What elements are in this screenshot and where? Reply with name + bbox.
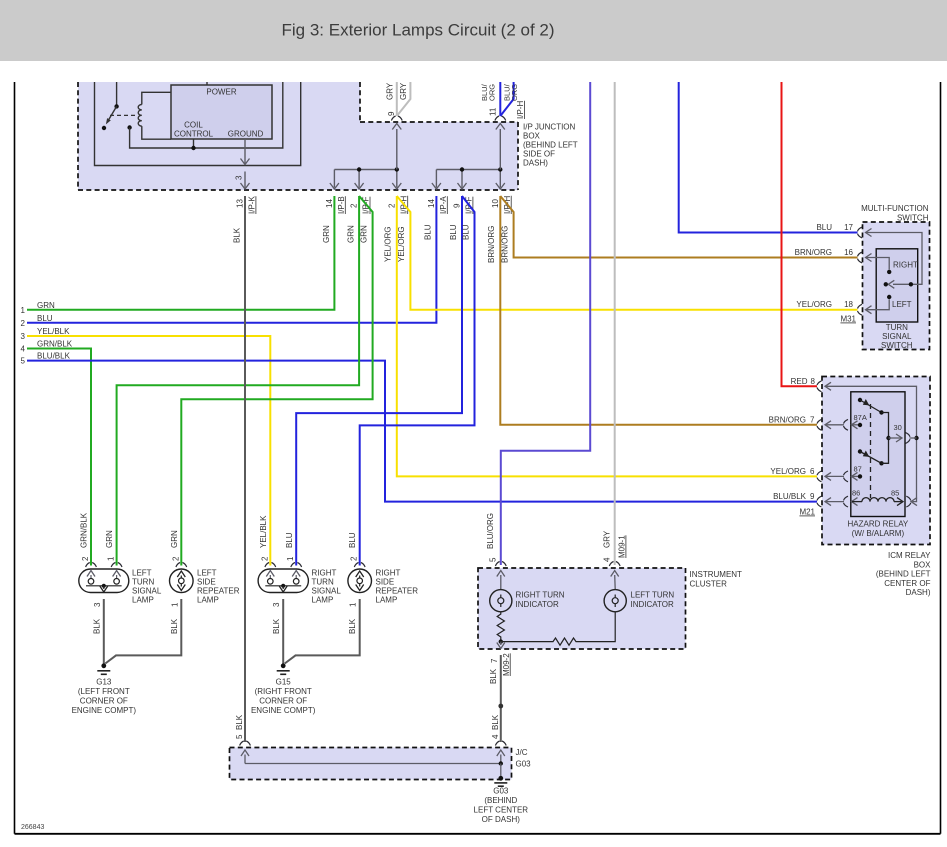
svg-text:BLU: BLU xyxy=(449,224,458,240)
node switch common xyxy=(884,282,888,286)
wire COIL CONTROL pin drop xyxy=(193,139,195,148)
svg-text:18: 18 xyxy=(844,300,853,309)
wire BLU/ORG stub straight xyxy=(499,82,501,116)
svg-text:14: 14 xyxy=(325,199,334,208)
pin 16 multi-function switch xyxy=(858,252,863,263)
svg-text:BLU: BLU xyxy=(348,532,357,548)
svg-text:GRN: GRN xyxy=(322,225,331,243)
svg-text:87A: 87A xyxy=(854,413,867,422)
svg-text:M09-1: M09-1 xyxy=(618,535,627,558)
right turn indicator lamp xyxy=(490,590,512,612)
wire GROUND drop xyxy=(244,139,246,164)
node coil-control junction xyxy=(127,125,131,129)
svg-text:CORNER OF: CORNER OF xyxy=(80,697,128,706)
svg-text:2: 2 xyxy=(350,556,359,561)
svg-text:2: 2 xyxy=(21,319,26,328)
svg-text:LEFT: LEFT xyxy=(197,569,217,578)
svg-text:SIGNAL: SIGNAL xyxy=(132,587,162,596)
svg-text:GRN: GRN xyxy=(37,301,55,310)
relay coil 86-85 xyxy=(852,501,862,503)
relay coil L xyxy=(138,105,142,127)
armature dashed link xyxy=(870,404,872,498)
node G03 junction xyxy=(499,761,503,765)
svg-text:GRY: GRY xyxy=(399,82,408,100)
svg-text:J/C: J/C xyxy=(516,748,528,757)
svg-text:CENTER OF: CENTER OF xyxy=(884,579,930,588)
pin 5 J/C xyxy=(240,741,251,746)
wire to ground G03 xyxy=(500,764,502,778)
svg-text:I/P-H: I/P-H xyxy=(516,101,525,119)
relay inner terminal box POWER / COIL CONTROL / GROUND xyxy=(171,85,272,139)
svg-text:GRY: GRY xyxy=(603,530,612,548)
wire YEL/BLK line3 to right turn signal lamp pin2 xyxy=(27,336,270,566)
svg-text:1: 1 xyxy=(107,556,116,561)
svg-text:LEFT TURN: LEFT TURN xyxy=(631,591,675,600)
ICM relay box (dashed) xyxy=(822,377,930,545)
svg-text:10: 10 xyxy=(491,199,500,208)
svg-text:BLU/BLK: BLU/BLK xyxy=(37,352,71,361)
wire BRN/ORG branch to multi-function switch pin16 xyxy=(500,196,857,258)
svg-text:9: 9 xyxy=(387,111,396,116)
wire coil control run xyxy=(130,82,283,148)
wire RED feed to hazard relay pin8 xyxy=(782,82,818,386)
svg-text:6: 6 xyxy=(810,467,815,476)
pin 18 multi-function switch xyxy=(858,304,863,315)
pin 4 instrument cluster xyxy=(609,562,620,567)
wire pin16 to RIGHT contact xyxy=(866,258,889,270)
pin 2 I/P-H I/P junction box bottom xyxy=(390,191,392,193)
svg-text:4: 4 xyxy=(603,557,612,562)
svg-text:Fig 3: Exterior Lamps Circuit: Fig 3: Exterior Lamps Circuit (2 of 2) xyxy=(281,21,554,40)
svg-text:CLUSTER: CLUSTER xyxy=(690,580,728,589)
svg-text:REPEATER: REPEATER xyxy=(197,587,240,596)
svg-text:7: 7 xyxy=(810,415,815,424)
svg-text:13: 13 xyxy=(236,199,245,208)
svg-text:BLK: BLK xyxy=(233,227,242,243)
svg-text:GRN: GRN xyxy=(105,530,114,548)
svg-text:I/P-A: I/P-A xyxy=(439,196,448,214)
svg-text:ICM RELAY: ICM RELAY xyxy=(888,551,931,560)
pin 13 I/P-K I/P junction box bottom xyxy=(239,191,241,193)
svg-text:ENGINE COMPT): ENGINE COMPT) xyxy=(72,706,137,715)
wire POWER feed stub xyxy=(206,82,208,85)
svg-text:SIDE: SIDE xyxy=(197,578,216,587)
svg-text:RIGHT: RIGHT xyxy=(893,260,918,269)
relay switch contact node xyxy=(102,126,106,130)
left turn signal lamp xyxy=(79,569,129,593)
svg-text:85: 85 xyxy=(891,489,899,498)
svg-text:5: 5 xyxy=(21,357,26,366)
svg-text:8: 8 xyxy=(811,377,816,386)
svg-text:OF DASH): OF DASH) xyxy=(482,815,521,824)
node LEFT contact xyxy=(887,295,891,299)
svg-text:(BEHIND LEFT: (BEHIND LEFT xyxy=(523,141,578,150)
wire pin9 feed into bus A xyxy=(396,129,398,170)
wire BLK right turn lamp to G15 xyxy=(282,599,284,664)
svg-text:3: 3 xyxy=(21,332,26,341)
header title bar xyxy=(0,0,947,61)
svg-text:GRN: GRN xyxy=(360,225,369,243)
svg-text:LAMP: LAMP xyxy=(132,596,154,605)
page frame border xyxy=(14,82,16,834)
wire GRY stub diagonal xyxy=(397,82,411,116)
multi-function switch box xyxy=(863,222,930,350)
svg-text:LEFT CENTER: LEFT CENTER xyxy=(474,806,529,815)
svg-text:HAZARD RELAY: HAZARD RELAY xyxy=(848,520,909,529)
svg-text:86: 86 xyxy=(852,489,860,498)
svg-text:RIGHT: RIGHT xyxy=(312,569,337,578)
svg-text:REPEATER: REPEATER xyxy=(376,587,419,596)
svg-text:BLU/BLK: BLU/BLK xyxy=(773,492,807,501)
svg-text:DASH): DASH) xyxy=(523,159,548,168)
wire pin8 feed to pin85 and pin30 xyxy=(826,386,917,501)
svg-text:14: 14 xyxy=(427,199,436,208)
svg-text:SIDE: SIDE xyxy=(376,578,395,587)
relay blade upper xyxy=(858,398,862,402)
svg-text:INDICATOR: INDICATOR xyxy=(631,600,674,609)
pin 87A bracket xyxy=(844,419,849,430)
svg-text:LEFT: LEFT xyxy=(132,569,152,578)
svg-text:1: 1 xyxy=(286,556,295,561)
pin 9 I/P-F I/P junction box bottom xyxy=(456,191,458,193)
svg-text:G03: G03 xyxy=(516,760,532,769)
svg-text:GRN/BLK: GRN/BLK xyxy=(37,340,73,349)
svg-text:DASH): DASH) xyxy=(906,588,931,597)
svg-text:BOX: BOX xyxy=(914,560,932,569)
left turn indicator lamp xyxy=(604,590,626,612)
pin 4 J/C xyxy=(495,741,506,746)
pin 3 relay ground xyxy=(239,166,241,168)
svg-text:266843: 266843 xyxy=(21,824,44,831)
svg-text:MULTI-FUNCTION: MULTI-FUNCTION xyxy=(861,204,929,213)
wire YEL/ORG branch to multi-function switch pin18 xyxy=(397,196,858,310)
relay mechanical link (dashed) xyxy=(110,114,138,116)
svg-text:BLK: BLK xyxy=(235,714,244,730)
svg-text:(BEHIND LEFT: (BEHIND LEFT xyxy=(876,570,931,579)
svg-text:BRN/ORG: BRN/ORG xyxy=(769,415,806,424)
pin 87 bracket xyxy=(844,471,849,482)
svg-text:7: 7 xyxy=(490,658,499,663)
svg-text:(BEHIND: (BEHIND xyxy=(484,796,517,805)
right turn signal lamp xyxy=(258,569,308,593)
node bus B junctions xyxy=(460,167,464,171)
pin 5 instrument cluster xyxy=(495,562,506,567)
svg-text:ENGINE COMPT): ENGINE COMPT) xyxy=(251,706,316,715)
pin 9 I/P top xyxy=(391,116,402,121)
svg-text:GRY: GRY xyxy=(386,82,395,100)
svg-text:BLU/ORG: BLU/ORG xyxy=(486,513,495,549)
svg-text:I/P-B: I/P-B xyxy=(337,196,346,214)
pin 7 instrument cluster xyxy=(500,642,502,645)
node control junction dot xyxy=(191,146,195,150)
svg-text:(W/ B/ALARM): (W/ B/ALARM) xyxy=(852,529,905,538)
J/C G03 junction box (dashed) xyxy=(230,748,512,780)
internal bus J/C xyxy=(245,763,501,765)
svg-text:COIL: COIL xyxy=(184,121,203,130)
svg-text:SWITCH: SWITCH xyxy=(881,341,913,350)
resistor R horizontal xyxy=(501,612,615,645)
wire BLU line2 from I/P-A pin14 xyxy=(27,196,436,323)
pin 2 I/P-F I/P junction box bottom xyxy=(353,191,355,193)
node 87 contact xyxy=(858,474,862,478)
wire GRN from I/P-F pin2 to left turn signal lamp pin1 xyxy=(117,196,360,566)
svg-text:BRN/ORG: BRN/ORG xyxy=(795,248,832,257)
relay switch pivot node xyxy=(114,104,118,108)
svg-text:LAMP: LAMP xyxy=(376,596,398,605)
relay switch blade xyxy=(109,106,117,119)
node RIGHT contact xyxy=(887,270,891,274)
svg-text:I/P JUNCTION: I/P JUNCTION xyxy=(523,123,576,132)
pin 14 I/P-B I/P junction box bottom xyxy=(328,191,330,193)
svg-text:4: 4 xyxy=(491,734,500,739)
node pin 30 junction xyxy=(886,436,890,440)
svg-text:POWER: POWER xyxy=(206,88,236,97)
svg-text:SWITCH: SWITCH xyxy=(897,214,929,223)
svg-text:5: 5 xyxy=(489,557,498,562)
wire pin18 to LEFT contact xyxy=(866,300,889,310)
pin 14 I/P-A I/P junction box bottom xyxy=(430,191,432,193)
svg-text:BLU: BLU xyxy=(816,223,832,232)
svg-text:BLU: BLU xyxy=(462,224,471,240)
svg-text:G03: G03 xyxy=(493,787,509,796)
relay blade lower xyxy=(858,449,862,453)
svg-text:87: 87 xyxy=(854,465,862,474)
svg-text:YEL/BLK: YEL/BLK xyxy=(259,515,268,548)
svg-text:RIGHT TURN: RIGHT TURN xyxy=(516,591,565,600)
svg-text:SIDE OF: SIDE OF xyxy=(523,150,555,159)
wire GRN branch to left side repeater lamp pin2 xyxy=(181,196,372,566)
turn signal switch inner box xyxy=(876,249,918,322)
svg-text:I/P-K: I/P-K xyxy=(248,196,257,214)
svg-text:INSTRUMENT: INSTRUMENT xyxy=(690,570,743,579)
svg-text:CONTROL: CONTROL xyxy=(174,130,214,139)
bus A (pin 9 distribution) xyxy=(334,169,396,171)
node resistor junction xyxy=(499,639,503,643)
svg-text:BLK: BLK xyxy=(348,618,357,634)
wire GRY feed to instrument cluster pin4 xyxy=(614,82,616,565)
wire pin17 to switch common xyxy=(866,233,922,285)
svg-text:LAMP: LAMP xyxy=(197,596,219,605)
svg-text:GRN/BLK: GRN/BLK xyxy=(80,512,89,548)
node blade joins xyxy=(879,410,883,414)
side repeater lamp right xyxy=(348,569,372,593)
svg-text:17: 17 xyxy=(844,223,853,232)
svg-text:LAMP: LAMP xyxy=(312,596,334,605)
wire BRN/ORG from I/P-H pin10 to hazard relay pin7 xyxy=(500,196,817,425)
svg-text:BRN/ORG: BRN/ORG xyxy=(487,226,496,263)
pin 11 I/P top xyxy=(495,116,506,121)
svg-text:2: 2 xyxy=(260,556,269,561)
svg-text:BOX: BOX xyxy=(523,132,541,141)
wire GRN line1 from I/P-B pin14 xyxy=(27,196,334,310)
svg-text:30: 30 xyxy=(894,423,902,432)
svg-text:SIGNAL: SIGNAL xyxy=(312,587,342,596)
svg-text:SIGNAL: SIGNAL xyxy=(882,332,912,341)
wire BLU/ORG stub diagonal xyxy=(500,82,513,116)
svg-text:BLU: BLU xyxy=(424,224,433,240)
side repeater lamp left xyxy=(170,569,194,593)
svg-text:4: 4 xyxy=(21,345,26,354)
svg-text:ORG: ORG xyxy=(488,84,497,101)
svg-text:5: 5 xyxy=(235,734,244,739)
wire BLU from I/P-F pin9 to right turn signal lamp pin1 xyxy=(296,196,462,566)
ground G03 xyxy=(498,776,503,781)
svg-text:RED: RED xyxy=(791,377,808,386)
pin 86 bracket xyxy=(844,496,849,507)
wire BLK left turn lamp to G13 xyxy=(103,599,105,664)
wire BLU/BLK line5 to hazard relay pin9 xyxy=(27,361,817,502)
svg-text:BLK: BLK xyxy=(170,618,179,634)
svg-text:TURN: TURN xyxy=(886,323,908,332)
wire BLK right repeater to G15 xyxy=(285,599,360,664)
node wire tap xyxy=(909,282,913,286)
I/P junction box (dashed, lavender) xyxy=(78,82,518,190)
wire BLK instrument cluster to J/C G03 xyxy=(500,655,502,742)
wire GRN/BLK line4 to left turn signal lamp pin2 xyxy=(27,349,91,566)
relay housing box xyxy=(95,82,301,166)
svg-text:INDICATOR: INDICATOR xyxy=(516,600,559,609)
wire BLU/ORG feed to instrument cluster pin5 xyxy=(501,82,590,565)
svg-text:M31: M31 xyxy=(840,315,856,324)
svg-text:1: 1 xyxy=(349,602,358,607)
svg-text:RIGHT: RIGHT xyxy=(376,569,401,578)
svg-text:BLU: BLU xyxy=(285,532,294,548)
node pin30 tap on feed xyxy=(914,436,918,440)
svg-text:BLK: BLK xyxy=(489,668,498,684)
svg-text:LEFT: LEFT xyxy=(892,300,912,309)
svg-text:M21: M21 xyxy=(799,508,815,517)
svg-text:2: 2 xyxy=(387,203,396,208)
svg-text:YEL/ORG: YEL/ORG xyxy=(384,226,393,262)
svg-text:3: 3 xyxy=(93,602,102,607)
ground G15 xyxy=(281,663,286,668)
svg-text:YEL/BLK: YEL/BLK xyxy=(37,327,70,336)
wire BLU branch to right side repeater lamp pin2 xyxy=(360,196,475,566)
svg-text:2: 2 xyxy=(81,556,90,561)
svg-text:1: 1 xyxy=(21,306,26,315)
svg-text:TURN: TURN xyxy=(132,578,154,587)
svg-text:BLU: BLU xyxy=(37,314,53,323)
svg-text:2: 2 xyxy=(171,556,180,561)
svg-text:BRN/ORG: BRN/ORG xyxy=(501,226,510,263)
pin 10 I/P-H I/P junction box bottom xyxy=(494,191,496,193)
relay switch common wire xyxy=(116,82,118,106)
svg-text:BLK: BLK xyxy=(491,714,500,730)
wire BLK left repeater to G13 xyxy=(105,599,181,664)
svg-text:(RIGHT FRONT: (RIGHT FRONT xyxy=(255,687,312,696)
wire BLK from I/P-K pin13 down to J/C G03 xyxy=(244,196,246,742)
svg-text:YEL/ORG: YEL/ORG xyxy=(796,300,832,309)
svg-text:GROUND: GROUND xyxy=(228,130,264,139)
svg-text:GRN: GRN xyxy=(347,225,356,243)
svg-text:M09-2: M09-2 xyxy=(502,653,511,676)
svg-text:9: 9 xyxy=(453,203,462,208)
svg-text:9: 9 xyxy=(810,492,815,501)
wire common bar xyxy=(882,413,889,464)
svg-text:YEL/ORG: YEL/ORG xyxy=(397,226,406,262)
svg-text:1: 1 xyxy=(170,602,179,607)
wire pin11 feed into bus B xyxy=(499,129,501,170)
svg-text:BLK: BLK xyxy=(272,618,281,634)
svg-text:16: 16 xyxy=(844,248,853,257)
resistor R vertical xyxy=(497,612,504,642)
svg-text:3: 3 xyxy=(235,175,244,180)
svg-text:(LEFT FRONT: (LEFT FRONT xyxy=(78,687,130,696)
node 87A contact xyxy=(858,423,862,427)
svg-text:CORNER OF: CORNER OF xyxy=(259,697,307,706)
wire BLU top feed to multi-function switch pin17 xyxy=(679,82,858,233)
svg-text:2: 2 xyxy=(350,203,359,208)
bus B (pin 11 distribution) xyxy=(436,169,500,171)
node bus A junctions xyxy=(357,167,361,171)
svg-text:BLK: BLK xyxy=(93,618,102,634)
svg-text:3: 3 xyxy=(272,602,281,607)
svg-text:G13: G13 xyxy=(96,678,112,687)
hazard relay inner box xyxy=(851,392,905,517)
node splice on BLK xyxy=(498,704,503,709)
svg-text:TURN: TURN xyxy=(312,578,334,587)
svg-text:GRN: GRN xyxy=(170,530,179,548)
ground G13 xyxy=(101,663,106,668)
svg-text:YEL/ORG: YEL/ORG xyxy=(770,467,806,476)
svg-text:ORG: ORG xyxy=(510,84,519,101)
svg-text:11: 11 xyxy=(489,107,498,116)
svg-text:G15: G15 xyxy=(276,678,292,687)
pin 17 multi-function switch xyxy=(858,227,863,238)
instrument cluster box (dashed) xyxy=(478,568,686,649)
wire GRY stub straight xyxy=(396,82,398,116)
wire YEL/ORG from I/P-H pin2 to hazard relay pin6 xyxy=(397,196,817,476)
